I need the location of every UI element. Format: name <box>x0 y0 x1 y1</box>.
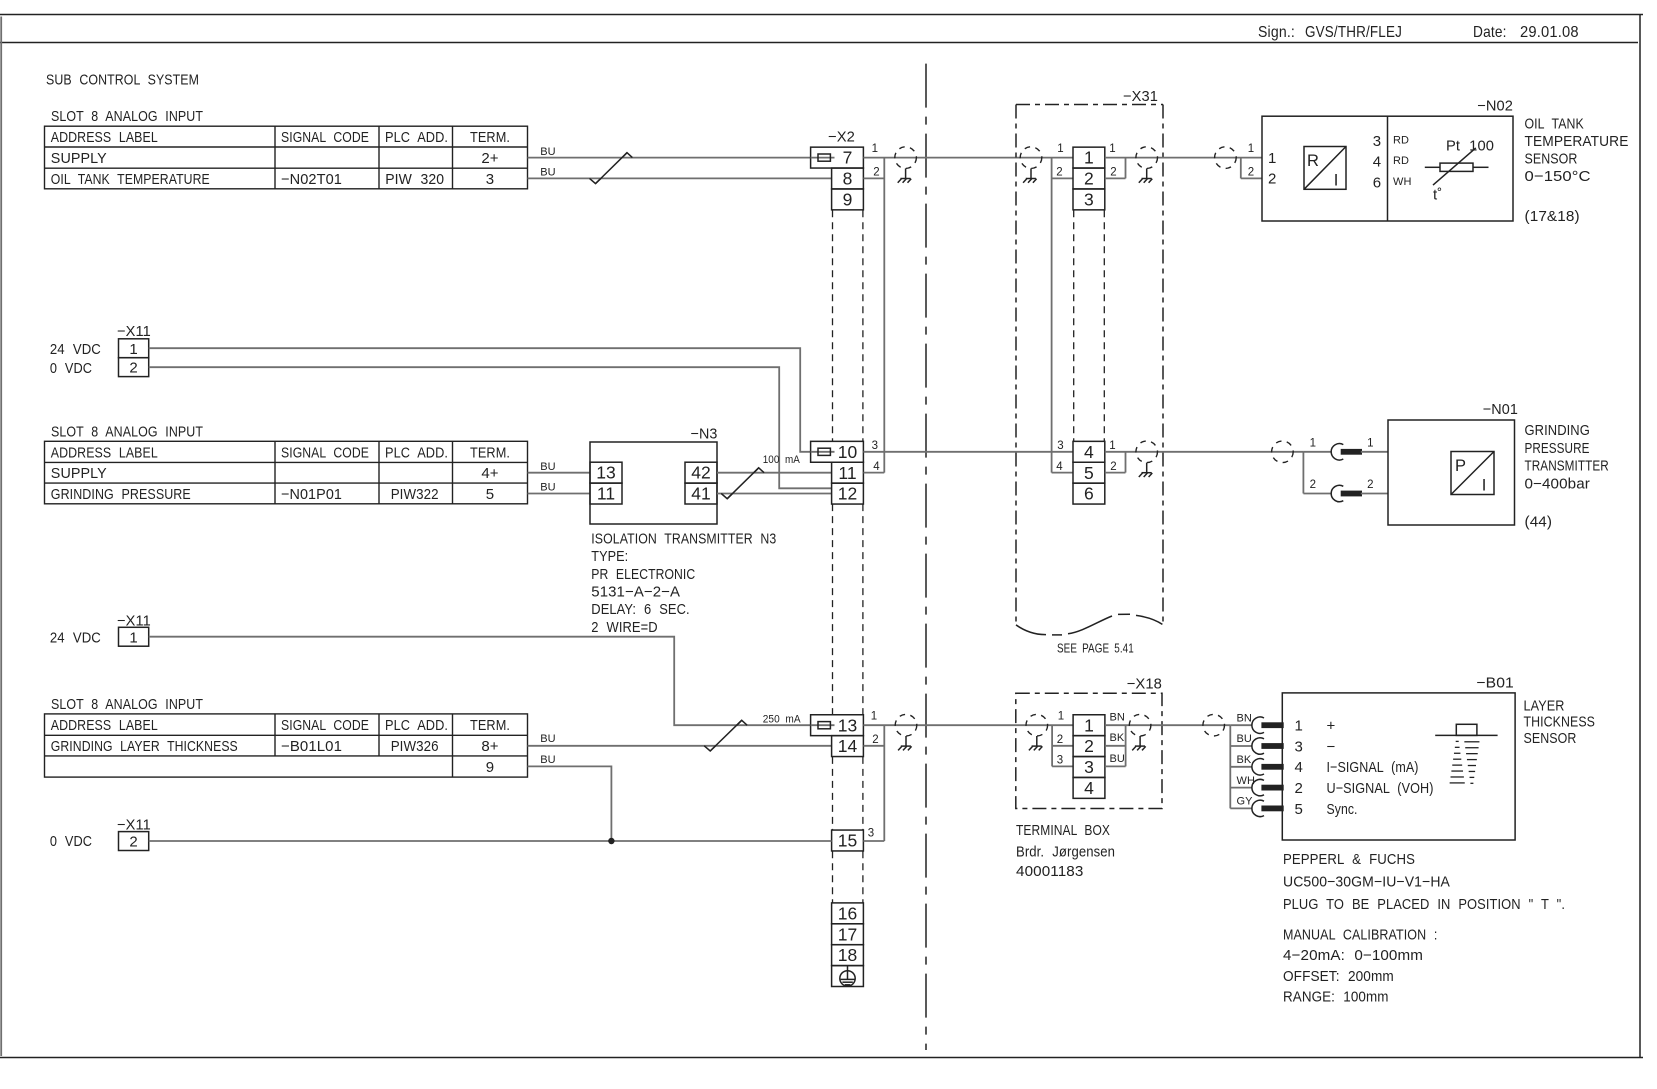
svg-text:5: 5 <box>1084 463 1094 483</box>
cable line at B01 (5 cores) <box>1229 725 1231 808</box>
wire 2+ supply to fuse terminal X2:7 <box>528 157 811 159</box>
svg-text:4: 4 <box>1373 154 1381 171</box>
svg-text:GRINDING: GRINDING <box>1525 422 1590 439</box>
svg-text:PLUG TO BE PLACED IN POSITION: PLUG TO BE PLACED IN POSITION " T ". <box>1283 896 1565 913</box>
terminal X11:2 (bottom) <box>119 832 149 851</box>
svg-text:OIL TANK TEMPERATURE: OIL TANK TEMPERATURE <box>51 171 210 188</box>
svg-text:BU: BU <box>540 733 555 745</box>
wire bundle X31 to N02 <box>1105 157 1262 159</box>
text terminal box data <box>1016 822 1115 880</box>
svg-text:RANGE: 100mm: RANGE: 100mm <box>1283 989 1389 1006</box>
wire bundle X2 to X31 (circuit 1) <box>863 157 1073 159</box>
svg-text:(44): (44) <box>1525 514 1553 531</box>
svg-text:8: 8 <box>843 169 853 189</box>
svg-text:GVS/THR/FLEJ: GVS/THR/FLEJ <box>1305 24 1402 41</box>
svg-text:4+: 4+ <box>481 465 498 482</box>
svg-text:0−400bar: 0−400bar <box>1525 475 1590 492</box>
core 1 wire to N01 connector <box>1303 451 1331 453</box>
terminal X2:15 <box>832 830 864 851</box>
text isolation transmitter data <box>591 531 776 636</box>
cable line left of X31 (cores 1-4) <box>1051 158 1053 473</box>
svg-text:3: 3 <box>1057 755 1063 767</box>
svg-text:SEE PAGE 5.41: SEE PAGE 5.41 <box>1057 640 1134 655</box>
wire core BK to B01 pin 4 <box>1230 766 1252 768</box>
svg-text:1: 1 <box>871 711 877 723</box>
svg-text:SUB CONTROL SYSTEM: SUB CONTROL SYSTEM <box>46 72 199 89</box>
cable line X18 to B01 <box>1125 725 1127 766</box>
svg-text:24 VDC: 24 VDC <box>50 341 101 358</box>
svg-text:BU: BU <box>1110 753 1125 765</box>
terminal box -X31 dashed outline <box>1016 88 1163 635</box>
svg-text:2: 2 <box>1295 780 1303 797</box>
wire input 3 to terminal X2:8 <box>528 177 832 179</box>
cable limit dashes below X2:9 <box>833 210 863 441</box>
terminal X2:8 <box>832 168 864 189</box>
wire bundle X31 to N01 <box>1105 451 1304 453</box>
screen drain with ground (X31 right, circuit 1) <box>1136 147 1158 183</box>
svg-text:ISOLATION TRANSMITTER N3: ISOLATION TRANSMITTER N3 <box>591 531 776 548</box>
text grinding pressure transmitter <box>1525 422 1609 530</box>
wire N3:41 to X2:12 <box>717 493 832 495</box>
terminal X2:9 <box>832 189 864 210</box>
wire 24VDC to fuse X2:13 <box>149 637 811 726</box>
svg-text:1: 1 <box>1084 148 1094 168</box>
layer thickness sensor -B01 <box>1282 675 1515 840</box>
terminal X18:2 <box>1073 736 1105 757</box>
terminal X18:4 <box>1073 777 1105 798</box>
wire core WH to B01 pin 2 <box>1230 787 1252 789</box>
Pt 100 RTD symbol <box>1425 137 1494 203</box>
terminal X31:5 <box>1073 462 1105 483</box>
svg-text:SENSOR: SENSOR <box>1524 730 1577 747</box>
text oil tank temperature sensor <box>1525 115 1629 224</box>
wire core BN to B01 pin 1 <box>1230 724 1252 726</box>
svg-text:+: + <box>1327 718 1336 735</box>
screen drain with ground (left of divider, circuit 3) <box>895 714 917 750</box>
wire bundle X18 to B01 <box>1105 724 1230 726</box>
fuse terminal X2:10 <box>811 441 864 462</box>
temperature transmitter -N02 <box>1262 98 1513 222</box>
svg-text:4: 4 <box>1084 442 1094 462</box>
svg-text:−B01L01: −B01L01 <box>281 738 342 755</box>
svg-text:4−20mA: 0−100mm: 4−20mA: 0−100mm <box>1283 947 1423 964</box>
svg-text:−N01: −N01 <box>1483 401 1518 418</box>
svg-text:RD: RD <box>1393 134 1409 146</box>
connector pin 5 of B01 <box>1252 800 1284 816</box>
svg-text:SLOT 8 ANALOG INPUT: SLOT 8 ANALOG INPUT <box>51 108 203 125</box>
connector pin 2 of N01 <box>1331 485 1362 501</box>
svg-text:1: 1 <box>872 143 878 155</box>
svg-text:1: 1 <box>1084 715 1094 735</box>
screen drain with ground (X18 right) <box>1129 714 1151 750</box>
svg-text:10: 10 <box>838 442 858 462</box>
svg-text:−X2: −X2 <box>828 129 855 146</box>
terminal X18:1 <box>1073 715 1105 736</box>
svg-text:2: 2 <box>1268 171 1276 188</box>
svg-text:BU: BU <box>540 167 555 179</box>
svg-text:BU: BU <box>540 461 555 473</box>
svg-text:5131−A−2−A: 5131−A−2−A <box>591 584 680 601</box>
screen drain with ground (right of divider, circuit 1) <box>1020 147 1042 183</box>
wire core GY to B01 pin 5 <box>1230 807 1252 809</box>
svg-text:8+: 8+ <box>481 738 498 755</box>
wire bundle X2 to X18 <box>863 724 1073 726</box>
svg-text:−X11: −X11 <box>117 323 151 340</box>
svg-text:3: 3 <box>872 440 878 452</box>
svg-text:2: 2 <box>1248 166 1254 178</box>
svg-text:t˚: t˚ <box>1433 187 1442 204</box>
svg-text:−B01: −B01 <box>1476 675 1514 692</box>
svg-text:3: 3 <box>1084 189 1094 209</box>
svg-text:6: 6 <box>1373 174 1381 191</box>
svg-text:29.01.08: 29.01.08 <box>1520 24 1579 41</box>
svg-text:LAYER: LAYER <box>1524 697 1565 714</box>
connector pin 1 of N01 <box>1331 444 1362 460</box>
svg-text:PIW326: PIW326 <box>391 738 439 755</box>
svg-text:SUPPLY: SUPPLY <box>51 150 107 167</box>
svg-text:1: 1 <box>1367 437 1373 449</box>
text layer thickness sensor <box>1524 697 1596 747</box>
cable limit dashes below X2:14 <box>833 757 863 830</box>
cable core 2 wire X31:2 to cable line <box>1105 177 1126 179</box>
svg-text:PIW322: PIW322 <box>391 486 439 503</box>
svg-text:1: 1 <box>1057 143 1063 155</box>
terminal X31:1 <box>1073 147 1105 168</box>
svg-text:15: 15 <box>838 831 857 851</box>
svg-text:1: 1 <box>1268 150 1276 167</box>
svg-text:GY: GY <box>1237 796 1254 808</box>
wire X18:2 to cable line (BK) <box>1105 745 1126 747</box>
cable core 4 wire X2:11 to cable line <box>863 472 884 474</box>
svg-text:OFFSET: 200mm: OFFSET: 200mm <box>1283 968 1394 985</box>
cable break symbol circuit 2 <box>721 468 764 499</box>
svg-text:−N3: −N3 <box>691 425 718 442</box>
svg-text:SIGNAL CODE: SIGNAL CODE <box>281 129 369 146</box>
svg-text:I: I <box>1482 477 1487 495</box>
terminal X2:14 <box>832 736 864 757</box>
terminal X2:PE earth terminal <box>832 966 864 987</box>
isolation transmitter -N3 <box>590 425 718 524</box>
screen drain with ground (left of divider, circuit 1) <box>895 147 917 183</box>
svg-text:SIGNAL CODE: SIGNAL CODE <box>281 444 369 461</box>
svg-text:TEMPERATURE: TEMPERATURE <box>1525 133 1629 150</box>
svg-text:2: 2 <box>1084 169 1094 189</box>
wire 0VDC rail to terminal X2:15 <box>149 840 832 842</box>
cable break symbol circuit 3 <box>704 720 747 751</box>
cable break symbol circuit 1 <box>590 153 633 184</box>
cable limit dashes below X2:12 <box>833 504 863 714</box>
svg-text:TERM.: TERM. <box>470 444 510 461</box>
terminal X31:2 <box>1073 168 1105 189</box>
svg-text:41: 41 <box>691 484 710 504</box>
connector pin 3 of B01 <box>1252 738 1284 754</box>
svg-text:4: 4 <box>1084 778 1094 798</box>
svg-text:2+: 2+ <box>481 150 498 167</box>
svg-text:2: 2 <box>1110 166 1116 178</box>
svg-text:−X18: −X18 <box>1127 675 1162 692</box>
terminal X18:3 <box>1073 757 1105 778</box>
svg-text:PLC ADD.: PLC ADD. <box>385 444 448 461</box>
terminal X11:1 (middle) <box>119 627 149 646</box>
cable core 4 wire into X31:5 <box>1052 472 1073 474</box>
svg-text:5: 5 <box>486 486 494 503</box>
svg-text:SIGNAL CODE: SIGNAL CODE <box>281 717 369 734</box>
svg-text:TRANSMITTER: TRANSMITTER <box>1525 458 1609 475</box>
svg-text:R: R <box>1307 152 1319 170</box>
terminal X11:1 (top) <box>119 339 149 358</box>
svg-text:GRINDING PRESSURE: GRINDING PRESSURE <box>51 486 191 503</box>
svg-text:0 VDC: 0 VDC <box>50 833 92 850</box>
svg-text:3: 3 <box>1295 738 1303 755</box>
svg-text:2: 2 <box>1057 734 1063 746</box>
svg-text:3: 3 <box>1373 133 1381 150</box>
svg-text:17: 17 <box>838 924 857 944</box>
svg-text:TYPE:: TYPE: <box>591 548 628 565</box>
svg-text:PRESSURE: PRESSURE <box>1525 440 1590 457</box>
svg-text:ADDRESS LABEL: ADDRESS LABEL <box>51 129 158 146</box>
PLC I/O table 2 <box>45 441 528 504</box>
wire core BU to B01 pin 3 <box>1230 745 1252 747</box>
svg-text:2: 2 <box>1310 479 1316 491</box>
terminal X11:2 (top) <box>119 358 149 377</box>
svg-text:0−150°C: 0−150°C <box>1525 168 1591 185</box>
svg-text:4: 4 <box>873 461 880 473</box>
svg-text:I−SIGNAL (mA): I−SIGNAL (mA) <box>1327 759 1419 776</box>
svg-text:ADDRESS LABEL: ADDRESS LABEL <box>51 444 158 461</box>
svg-text:BK: BK <box>1110 732 1125 744</box>
screen drain with ground (X18 left) <box>1026 714 1048 750</box>
svg-text:(17&18): (17&18) <box>1525 208 1580 225</box>
screen drain with ground (X31 right, circuit 2) <box>1136 441 1158 477</box>
pressure transmitter -N01 <box>1388 401 1518 525</box>
svg-text:2: 2 <box>129 834 137 851</box>
svg-text:1: 1 <box>1109 440 1115 452</box>
svg-text:PR ELECTRONIC: PR ELECTRONIC <box>591 566 695 583</box>
screen symbol at sensor cable (circuit 3) <box>1203 714 1225 736</box>
svg-text:18: 18 <box>838 945 857 965</box>
connector pin 4 of B01 <box>1252 759 1284 775</box>
svg-text:11: 11 <box>597 484 615 504</box>
svg-text:3: 3 <box>486 171 494 188</box>
svg-text:TERMINAL BOX: TERMINAL BOX <box>1016 822 1110 839</box>
wire 4+ supply to N3:13 <box>528 472 591 474</box>
R/I converter symbol in N02 <box>1304 147 1346 190</box>
svg-text:16: 16 <box>838 903 857 923</box>
svg-text:BU: BU <box>540 482 555 494</box>
svg-text:3: 3 <box>1057 440 1063 452</box>
terminal box -X18 dashed outline <box>1016 675 1162 808</box>
wire 8+ to terminal X2:14 <box>528 745 832 747</box>
terminal X31:4 <box>1073 441 1105 462</box>
cable core 2 wire X2:8 to cable line <box>863 177 884 179</box>
cable core 3 wire into X18:3 <box>1052 765 1073 767</box>
svg-text:P: P <box>1455 457 1466 475</box>
svg-text:0 VDC: 0 VDC <box>50 360 92 377</box>
svg-text:1: 1 <box>1310 437 1316 449</box>
svg-text:3: 3 <box>1084 757 1094 777</box>
svg-text:1: 1 <box>1109 143 1115 155</box>
svg-text:40001183: 40001183 <box>1016 863 1083 880</box>
svg-text:RD: RD <box>1393 155 1409 167</box>
svg-text:THICKNESS: THICKNESS <box>1524 714 1596 731</box>
junction dot 0VDC / input 9 <box>608 838 614 844</box>
core 2 wire into N02 pin 2 <box>1241 177 1262 179</box>
cable core 2 wire X31:5 to cable line <box>1105 472 1126 474</box>
cable line X31 to N01 <box>1125 452 1127 473</box>
svg-text:14: 14 <box>838 736 858 756</box>
svg-text:PLC ADD.: PLC ADD. <box>385 717 448 734</box>
svg-text:1: 1 <box>129 629 137 646</box>
svg-text:2 WIRE=D: 2 WIRE=D <box>591 619 657 636</box>
svg-text:−N02: −N02 <box>1477 98 1513 115</box>
wire bundle X2 to X31 (circuit 2) <box>884 451 1073 453</box>
svg-text:24 VDC: 24 VDC <box>50 629 101 646</box>
svg-text:4: 4 <box>1056 461 1063 473</box>
cable core 3 wire X2:10 to cable line <box>863 451 884 453</box>
svg-text:13: 13 <box>838 715 857 735</box>
svg-text:BU: BU <box>540 146 555 158</box>
wire connector to N01 pin 2 <box>1361 493 1388 495</box>
fuse terminal X2:13 <box>811 715 864 736</box>
cable core 2 wire into X31:2 <box>1052 177 1073 179</box>
terminal X31:3 <box>1073 189 1105 210</box>
svg-text:ADDRESS LABEL: ADDRESS LABEL <box>51 717 158 734</box>
page divider dash-dot line <box>925 64 927 1050</box>
connector pin 1 of B01 <box>1252 717 1284 733</box>
svg-text:2: 2 <box>129 360 137 377</box>
svg-text:13: 13 <box>596 463 615 483</box>
wire 0VDC to terminal X2:12 <box>149 367 832 488</box>
svg-text:100 mA: 100 mA <box>763 454 801 466</box>
wire 24VDC to fuse X2:10 <box>149 348 811 452</box>
svg-text:BU: BU <box>540 754 555 766</box>
cable core 2 wire into X18:2 <box>1052 745 1073 747</box>
svg-text:BK: BK <box>1237 754 1252 766</box>
svg-text:5: 5 <box>1295 801 1303 818</box>
svg-text:Pt 100: Pt 100 <box>1446 137 1494 154</box>
wire connector to N01 pin 1 <box>1361 451 1388 453</box>
svg-text:BU: BU <box>1237 733 1252 745</box>
cable line right of X2:13-15 <box>883 725 885 841</box>
fuse terminal X2:7 <box>811 147 864 168</box>
cable limit dashes below X2:15 <box>833 851 863 902</box>
svg-text:WH: WH <box>1393 176 1412 188</box>
svg-text:OIL TANK: OIL TANK <box>1525 115 1584 132</box>
terminal X2:17 <box>832 924 864 945</box>
screen symbol at sensor cable (circuit 2) <box>1272 441 1294 463</box>
terminal X2:11 <box>832 462 864 483</box>
svg-text:3: 3 <box>868 828 874 840</box>
svg-text:SLOT 8 ANALOG INPUT: SLOT 8 ANALOG INPUT <box>51 696 203 713</box>
svg-text:1: 1 <box>129 341 137 358</box>
svg-text:42: 42 <box>691 463 710 483</box>
wire N3:42 to X2:11 <box>717 472 832 474</box>
terminal X2:12 <box>832 483 864 504</box>
svg-text:1: 1 <box>1295 718 1303 735</box>
svg-text:9: 9 <box>486 759 494 776</box>
svg-text:−N02T01: −N02T01 <box>281 171 342 188</box>
svg-text:−X11: −X11 <box>117 816 151 833</box>
cable line left of X18 <box>1051 725 1053 766</box>
svg-text:1: 1 <box>1058 711 1064 723</box>
svg-text:BN: BN <box>1110 712 1125 724</box>
cable line at N02 <box>1240 158 1242 179</box>
wire X18:3 to cable line (BU) <box>1105 765 1126 767</box>
svg-text:2: 2 <box>873 166 879 178</box>
svg-text:250 mA: 250 mA <box>763 714 802 726</box>
svg-text:−N01P01: −N01P01 <box>281 486 342 503</box>
svg-text:2: 2 <box>1110 461 1116 473</box>
ultrasonic sensor symbol in B01 <box>1435 724 1497 783</box>
svg-text:DELAY: 6 SEC.: DELAY: 6 SEC. <box>591 601 689 618</box>
terminal X2:18 <box>832 945 864 966</box>
svg-text:1: 1 <box>1248 143 1254 155</box>
svg-text:9: 9 <box>843 189 853 209</box>
svg-text:SLOT 8 ANALOG INPUT: SLOT 8 ANALOG INPUT <box>51 423 203 440</box>
svg-text:BN: BN <box>1237 712 1252 724</box>
PLC I/O table 3 <box>45 714 528 777</box>
svg-text:7: 7 <box>843 148 853 168</box>
svg-text:−: − <box>1327 738 1336 755</box>
svg-text:PIW 320: PIW 320 <box>385 171 444 188</box>
svg-text:U−SIGNAL (VOH): U−SIGNAL (VOH) <box>1327 780 1434 797</box>
screen symbol at sensor cable (circuit 1) <box>1215 147 1237 169</box>
svg-text:TERM.: TERM. <box>470 129 510 146</box>
svg-text:SENSOR: SENSOR <box>1525 150 1578 167</box>
P/I converter symbol in N01 <box>1451 452 1494 495</box>
svg-text:6: 6 <box>1084 484 1094 504</box>
svg-text:UC500−30GM−IU−V1−HA: UC500−30GM−IU−V1−HA <box>1283 873 1450 890</box>
svg-text:2: 2 <box>1367 479 1373 491</box>
terminal X2:16 <box>832 903 864 924</box>
cable core 2 wire X2:14 to cable line <box>863 745 884 747</box>
cable line at N01 <box>1302 452 1304 494</box>
svg-text:MANUAL CALIBRATION :: MANUAL CALIBRATION : <box>1283 926 1438 943</box>
core 2 wire to N01 connector <box>1303 493 1331 495</box>
svg-text:PEPPERL & FUCHS: PEPPERL & FUCHS <box>1283 851 1415 868</box>
terminal X31:6 <box>1073 483 1105 504</box>
cable core 3 wire X2:15 to cable line <box>863 840 884 842</box>
cable line right of X2 (cores 1-4) <box>883 158 885 473</box>
svg-text:SUPPLY: SUPPLY <box>51 465 107 482</box>
svg-text:TERM.: TERM. <box>470 717 510 734</box>
svg-text:2: 2 <box>872 734 878 746</box>
PLC I/O table 1 <box>45 126 528 189</box>
svg-text:4: 4 <box>1295 759 1303 776</box>
wire input 5 to N3:11 <box>528 493 591 495</box>
svg-text:2: 2 <box>1084 736 1094 756</box>
svg-text:2: 2 <box>1056 166 1062 178</box>
connector pin 2 of B01 <box>1252 779 1284 795</box>
svg-text:Sign.:: Sign.: <box>1258 24 1295 41</box>
text sensor type and calibration <box>1283 851 1565 1006</box>
svg-text:I: I <box>1334 172 1339 190</box>
svg-text:11: 11 <box>838 463 856 483</box>
svg-text:12: 12 <box>838 484 857 504</box>
svg-text:Sync.: Sync. <box>1327 801 1358 818</box>
wire 9 to 0VDC rail <box>528 766 612 841</box>
svg-text:Brdr. Jørgensen: Brdr. Jørgensen <box>1016 843 1115 860</box>
cable limit dashes below X31:3 <box>1074 210 1105 441</box>
svg-text:Date:: Date: <box>1473 24 1507 41</box>
svg-text:GRINDING LAYER THICKNESS: GRINDING LAYER THICKNESS <box>51 738 238 755</box>
cable line X31 to N02 <box>1125 158 1127 179</box>
svg-text:−X31: −X31 <box>1123 88 1158 105</box>
svg-text:PLC ADD.: PLC ADD. <box>385 129 448 146</box>
